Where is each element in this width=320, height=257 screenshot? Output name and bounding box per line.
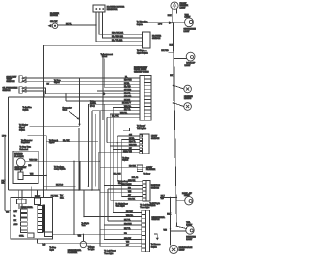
svg-text:BK / YL: BK / YL xyxy=(124,109,130,111)
hazard flasher box xyxy=(13,151,38,183)
svg-text:WH / BL: WH / BL xyxy=(124,106,131,108)
fuse panel bottom box xyxy=(28,233,34,238)
svg-text:WH: WH xyxy=(164,230,168,232)
svg-text:WH / RD: WH / RD xyxy=(29,160,37,162)
wire lamp lead xyxy=(173,86,183,90)
svg-text:To light: To light xyxy=(88,248,95,251)
wire to backup light xyxy=(160,197,176,199)
verticals center xyxy=(78,128,80,190)
wire resistor pin1 xyxy=(96,12,143,42)
fuse cells left xyxy=(21,209,28,232)
svg-text:WH / RD: WH / RD xyxy=(129,145,137,147)
svg-text:BL / YL 261: BL / YL 261 xyxy=(112,40,123,42)
wire ip w2 coolant2 xyxy=(26,80,140,82)
svg-text:Lights: Lights xyxy=(49,141,54,144)
wire backup lamp xyxy=(44,160,100,162)
wire big corner from lower area to blower wire xyxy=(44,45,143,186)
svg-text:Released: Released xyxy=(20,149,28,151)
svg-text:LIGHT: LIGHT xyxy=(185,65,192,67)
fuse panel bottom box2 xyxy=(45,232,53,237)
wire ip w5 xyxy=(97,90,140,92)
svg-text:MOTOR: MOTOR xyxy=(50,15,58,17)
wire small left xyxy=(149,202,156,204)
svg-text:Tail Lights: Tail Lights xyxy=(137,127,146,130)
svg-text:Turn: Turn xyxy=(82,225,86,227)
svg-text:FLASHER: FLASHER xyxy=(68,251,78,254)
svg-text:LIGHT: LIGHT xyxy=(186,225,193,227)
wire ip w10 xyxy=(113,107,140,109)
svg-text:BK / YL: BK / YL xyxy=(124,220,130,222)
wire bl bk to lights xyxy=(46,141,98,143)
svg-text:To: To xyxy=(14,215,16,217)
svg-text:SWITCH: SWITCH xyxy=(3,90,11,92)
fuse panel top small boxes xyxy=(17,198,41,205)
tail light xyxy=(186,226,194,234)
park turn light xyxy=(185,18,194,27)
svg-text:Lamp Switch: Lamp Switch xyxy=(54,168,65,171)
license lights right mid xyxy=(184,85,192,93)
wire blower motor to switch xyxy=(58,24,96,26)
license luggage light xyxy=(170,245,178,253)
svg-text:RD / BK 261: RD / BK 261 xyxy=(112,33,124,35)
wire resistor pin3 xyxy=(102,12,142,38)
vertical x107 xyxy=(106,117,108,142)
svg-text:RD / WH: RD / WH xyxy=(124,80,132,82)
svg-text:BL / BK: BL / BK xyxy=(63,140,70,142)
svg-text:CIRCUIT CONN: CIRCUIT CONN xyxy=(134,72,149,74)
wire to backup light xyxy=(173,58,186,60)
wires lower rear connector xyxy=(113,212,142,214)
svg-text:BK / LG: BK / LG xyxy=(56,185,63,187)
svg-text:LIGHT: LIGHT xyxy=(180,7,187,9)
svg-text:CTRL: CTRL xyxy=(19,236,24,238)
svg-text:DK GN / Y: DK GN / Y xyxy=(122,103,132,105)
svg-text:Signal: Signal xyxy=(54,82,60,84)
svg-text:LPG: LPG xyxy=(158,23,162,25)
svg-text:WH: WH xyxy=(30,174,34,176)
svg-text:Switch: Switch xyxy=(23,108,29,111)
junction flasher xyxy=(43,161,44,162)
wire ip w9 xyxy=(88,103,140,105)
riser fuse top5 xyxy=(43,186,45,197)
svg-text:FLASHER: FLASHER xyxy=(14,155,24,158)
wire resistor pin2 xyxy=(99,12,143,34)
vertical x46 xyxy=(45,136,47,190)
arrow to ground xyxy=(69,112,79,119)
wire w9 drop xyxy=(87,104,89,186)
svg-text:DK BL: DK BL xyxy=(129,138,134,140)
vertical x170.5 bottom xyxy=(170,198,172,246)
wire marker leads xyxy=(171,9,173,23)
svg-text:Light: Light xyxy=(50,249,55,252)
fuse panel bus bar xyxy=(43,205,46,233)
junction2 xyxy=(173,102,174,103)
svg-text:RD / WH: RD / WH xyxy=(124,224,132,226)
wire ip w7 xyxy=(9,96,141,98)
wire ip w8 xyxy=(66,100,140,102)
wire flasher out xyxy=(25,160,44,162)
svg-text:Grnd: Grnd xyxy=(63,110,67,112)
wire ip w13 xyxy=(107,116,140,118)
wire flasher stub xyxy=(143,166,146,168)
wire to x79 arrow xyxy=(30,125,80,127)
svg-text:SWITCH: SWITCH xyxy=(7,81,15,83)
blower switch box xyxy=(143,32,151,48)
svg-text:DK GN: DK GN xyxy=(124,99,131,101)
wire below to bundle xyxy=(104,59,106,88)
junction dot w6 xyxy=(65,93,66,94)
wire to turn flasher xyxy=(100,166,138,168)
svg-text:LIGHT: LIGHT xyxy=(184,195,191,197)
svg-text:Switch: Switch xyxy=(19,129,25,132)
backup light right xyxy=(186,52,195,61)
svg-text:OR / BK: OR / BK xyxy=(50,21,58,23)
svg-text:(Acc): (Acc) xyxy=(90,104,95,107)
fuse internal links xyxy=(18,204,20,209)
svg-text:WH / BL: WH / BL xyxy=(120,113,127,115)
ground symbol bottom xyxy=(154,234,159,240)
riser fuse top2 xyxy=(21,190,23,199)
svg-text:RD / YL: RD / YL xyxy=(129,141,136,143)
svg-text:BL / GN: BL / GN xyxy=(114,174,121,176)
vertical x5 xyxy=(4,136,6,211)
riser fuse top3 xyxy=(30,186,32,197)
riser fuse top1 xyxy=(18,190,20,199)
wire ip w1 coolant1 xyxy=(26,77,140,79)
rear lamp connector upper xyxy=(143,181,150,202)
svg-text:Switch: Switch xyxy=(150,204,156,207)
vertical x8.5 xyxy=(8,97,10,190)
svg-text:Light Switch: Light Switch xyxy=(137,51,148,54)
vertical x80 xyxy=(79,161,81,190)
svg-text:RESISTOR: RESISTOR xyxy=(107,9,118,11)
svg-text:LIGHT: LIGHT xyxy=(185,17,192,19)
wire WH into fuse panel xyxy=(5,210,11,212)
wire to park turn light xyxy=(147,22,185,24)
wire lamp lead2 xyxy=(173,103,183,107)
second lamp xyxy=(184,103,192,111)
svg-text:LPG: LPG xyxy=(2,136,6,138)
svg-text:Switch: Switch xyxy=(137,23,143,26)
wire to tail light xyxy=(171,230,186,232)
vertical x110.3 xyxy=(109,114,111,200)
svg-text:BL / RD 261: BL / RD 261 xyxy=(112,36,124,38)
wire signal switch xyxy=(27,135,46,137)
wire BK RD tick xyxy=(169,51,174,53)
svg-text:BK / RD: BK / RD xyxy=(161,50,169,52)
svg-text:DTL / B: DTL / B xyxy=(132,177,139,179)
junction dot xyxy=(173,22,174,23)
svg-text:RD / YL: RD / YL xyxy=(124,93,131,95)
svg-text:BRN / WH: BRN / WH xyxy=(123,151,132,153)
junction lights xyxy=(117,142,118,143)
wires upper rear connector xyxy=(117,181,143,183)
svg-text:SWITCH: SWITCH xyxy=(152,38,161,40)
wire right vertical BK xyxy=(173,23,176,226)
light switch box xyxy=(140,134,149,154)
wire w6 to w8 drop xyxy=(65,94,67,101)
wire w11 drop xyxy=(91,111,93,190)
svg-text:BLK: BLK xyxy=(168,15,172,17)
svg-text:LIGHT: LIGHT xyxy=(184,31,191,33)
hazard flasher circle xyxy=(16,158,25,167)
svg-text:Switch: Switch xyxy=(151,245,157,248)
svg-text:BL: BL xyxy=(125,76,127,78)
blower motor symbol xyxy=(48,23,58,29)
svg-text:SWITCH: SWITCH xyxy=(151,138,160,140)
wires into light switch xyxy=(117,135,140,137)
svg-text:BLK: BLK xyxy=(170,45,174,47)
svg-text:SWITCH: SWITCH xyxy=(152,219,160,221)
stop light switch symbol xyxy=(18,170,23,180)
svg-text:SWITCH: SWITCH xyxy=(15,169,23,171)
wire ip w4 xyxy=(105,87,140,89)
svg-text:WH / BL: WH / BL xyxy=(126,215,133,217)
fuse panel outer box xyxy=(11,197,53,239)
riser fuse top4 xyxy=(37,190,39,198)
svg-text:GN / OR: GN / OR xyxy=(128,180,136,182)
svg-text:To Rear: To Rear xyxy=(143,173,150,176)
svg-text:DK BL: DK BL xyxy=(124,83,129,85)
svg-text:Regulator: Regulator xyxy=(21,141,30,144)
verticals bottom center xyxy=(73,161,75,234)
diamond junction xyxy=(102,92,105,95)
front marker light xyxy=(171,2,178,9)
instrument panel connector xyxy=(140,76,151,121)
backup light bottom right xyxy=(185,197,193,205)
svg-text:LIGHT: LIGHT xyxy=(179,250,186,252)
svg-text:BK / YL: BK / YL xyxy=(124,228,130,230)
blower motor resistor connector box xyxy=(93,5,105,12)
vertical wire x79 with arrow xyxy=(79,78,81,124)
arrow connector xyxy=(169,21,173,24)
wire ip w3 xyxy=(50,84,140,86)
vertical x103 xyxy=(102,55,104,121)
vertical x117.3 xyxy=(116,136,118,182)
svg-text:RD / BK: RD / BK xyxy=(129,166,137,168)
svg-text:LIGHTS: LIGHTS xyxy=(184,98,192,100)
bracket to rear xyxy=(123,128,130,131)
fuse panel bus cells xyxy=(38,206,43,233)
svg-text:BLK / GRN: BLK / GRN xyxy=(122,184,132,186)
svg-text:GN / RD: GN / RD xyxy=(124,96,132,98)
wire ip w6 oil1 jog xyxy=(26,88,140,94)
svg-text:Turn Light: Turn Light xyxy=(104,252,113,255)
junction tail xyxy=(170,228,171,229)
svg-text:GY / RD: GY / RD xyxy=(124,89,132,91)
oil pressure switch xyxy=(19,87,26,94)
svg-text:FLASHER: FLASHER xyxy=(146,168,156,171)
svg-text:BK YL: BK YL xyxy=(66,23,73,25)
junction dots x79 xyxy=(79,93,80,94)
vertical x98.2 xyxy=(97,153,99,190)
svg-text:BL / RD: BL / RD xyxy=(124,86,131,88)
svg-text:Switch: Switch xyxy=(122,159,128,162)
wire fuse bottom out xyxy=(38,242,44,244)
svg-text:BLK: BLK xyxy=(167,214,171,216)
small turn flasher box xyxy=(137,165,143,171)
svg-text:Turn Light: Turn Light xyxy=(140,206,149,209)
vertical x113.2 xyxy=(112,108,114,213)
svg-text:OR / BK: OR / BK xyxy=(124,238,132,240)
svg-text:OR / BK: OR / BK xyxy=(128,199,136,201)
svg-text:SWITCH: SWITCH xyxy=(151,188,159,190)
wire ip w11 xyxy=(92,110,140,112)
svg-text:LIGHT: LIGHT xyxy=(186,239,193,241)
horizontals bottom left xyxy=(44,185,76,187)
wire stop switch out xyxy=(23,175,46,177)
coolant temp switch xyxy=(19,76,26,83)
vertical x121.3 xyxy=(120,139,122,196)
wire ip w12 xyxy=(110,113,140,115)
directional flasher xyxy=(80,234,86,248)
svg-text:Turn Light: Turn Light xyxy=(116,205,125,208)
wire oil2 jog xyxy=(26,91,44,97)
rear lamp connector lower xyxy=(142,210,150,252)
junction xyxy=(173,85,174,86)
svg-text:PK / BK: PK / BK xyxy=(126,211,133,213)
